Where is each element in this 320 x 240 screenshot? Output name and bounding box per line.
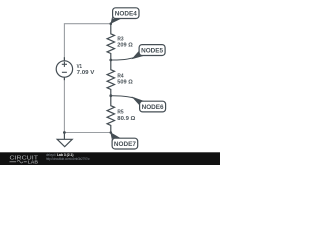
label V1 value 7.09 V — [77, 70, 95, 76]
CircuitLab logo — [10, 155, 39, 164]
resistor R4 — [107, 60, 114, 96]
svg-text:NODE6: NODE6 — [142, 104, 164, 111]
junction at node NODE5 (R3/R4) — [109, 59, 112, 62]
svg-text:209 Ω: 209 Ω — [117, 42, 133, 48]
wire: left rail V1 bottom down — [63, 77, 65, 132]
voltage source V1 — [56, 57, 72, 80]
svg-text:NODE4: NODE4 — [115, 11, 137, 18]
node NODE4 flag — [111, 8, 140, 24]
label R5 value 80.9 &#937; — [117, 116, 136, 122]
label V1 designator — [77, 64, 82, 70]
label R4 value 509 &#937; — [117, 80, 133, 86]
svg-text:http://circuitlab.com/c4mb3b27: http://circuitlab.com/c4mb3b2797w — [46, 157, 90, 161]
svg-text:LAB: LAB — [28, 160, 39, 165]
wire: bottom rail to resistor chain — [64, 132, 110, 134]
svg-text:R5: R5 — [117, 110, 123, 116]
svg-text:80.9 Ω: 80.9 Ω — [117, 116, 136, 122]
svg-text:NODE5: NODE5 — [141, 47, 163, 54]
watermark bar — [0, 152, 220, 165]
node NODE7 flag — [110, 132, 137, 149]
node NODE5 flag — [111, 45, 165, 60]
junction at node NODE6 (R4/R5) — [109, 94, 112, 97]
node NODE6 flag — [111, 96, 166, 112]
ground — [57, 133, 72, 147]
resistor R3 — [107, 24, 114, 60]
svg-text:R4: R4 — [117, 73, 123, 79]
svg-text:509 Ω: 509 Ω — [117, 80, 133, 86]
svg-text:V1: V1 — [77, 64, 82, 70]
label R3 value 209 &#937; — [117, 42, 133, 48]
junction at node NODE4 (wire corner / R3 top) — [110, 22, 113, 25]
svg-text:7.09 V: 7.09 V — [77, 70, 95, 76]
label R4 designator — [117, 73, 123, 79]
junction at ground / V1 negative — [63, 131, 66, 134]
wire: top rail from V1 to resistor chain — [64, 24, 110, 61]
junction at node NODE7 (R5 bottom) — [110, 131, 113, 134]
label R5 designator — [117, 110, 123, 116]
label R3 designator — [117, 37, 123, 43]
resistor R5 — [107, 96, 114, 133]
svg-text:NODE7: NODE7 — [114, 141, 136, 148]
